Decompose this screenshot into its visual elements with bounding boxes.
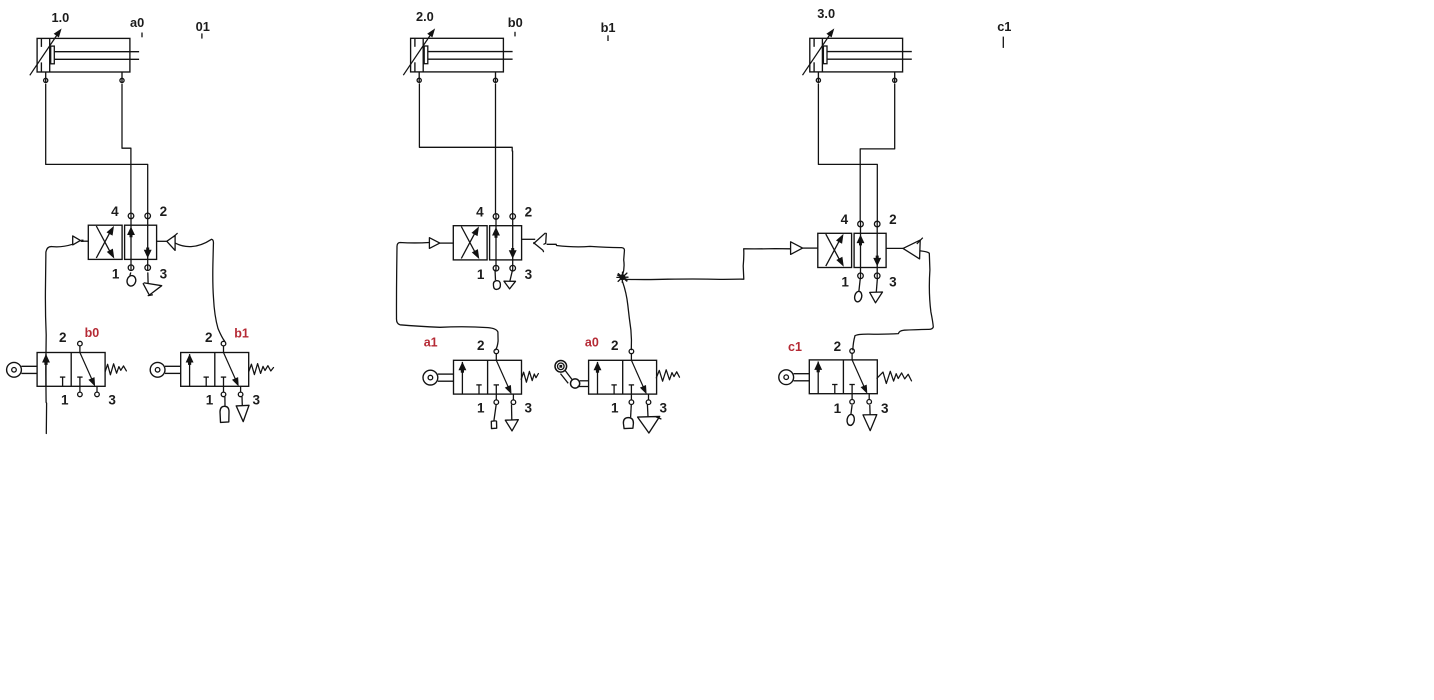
valve a1 exhaust (sketch) <box>505 405 518 431</box>
svg-text:3: 3 <box>881 401 889 416</box>
wire cylinder3.0 right port to valve3.1 port 4 <box>860 84 895 222</box>
valve b1 exhaust (sketch) <box>236 397 249 422</box>
valve 1.1 pressure source (sketch) <box>126 272 137 287</box>
valve b1 return spring <box>249 364 274 375</box>
wire valve1.1 left pilot down past valve b0 <box>45 244 72 433</box>
valve a0 (3/2-way roller valve, spring return) <box>589 349 657 404</box>
valve a0 roller-lever actuator (idle return) <box>555 361 589 389</box>
valve 1.1 right air-pilot <box>157 233 178 250</box>
svg-text:3: 3 <box>160 267 168 282</box>
svg-text:2: 2 <box>205 330 213 345</box>
svg-text:2: 2 <box>59 330 67 345</box>
svg-text:a0: a0 <box>585 336 599 350</box>
valve 2.1 pressure source (sketch) <box>493 270 500 290</box>
valve c1 (3/2-way roller valve, spring return) <box>809 349 877 404</box>
svg-text:a0: a0 <box>130 15 144 30</box>
valve a0 exhaust (sketch) <box>638 404 661 433</box>
svg-text:3: 3 <box>660 401 668 416</box>
svg-text:b1: b1 <box>601 20 616 35</box>
wire junction to valve a0 port 2 <box>623 282 632 350</box>
svg-text:2: 2 <box>160 204 168 219</box>
svg-text:2: 2 <box>525 205 533 220</box>
wire cylinder2.0 left port to valve2.1 port 2 <box>419 84 512 214</box>
svg-text:1: 1 <box>841 275 849 290</box>
wire cylinder1.0 right port to valve1.1 port 4 <box>122 84 131 213</box>
svg-text:4: 4 <box>841 212 849 227</box>
svg-text:3: 3 <box>524 401 532 416</box>
svg-text:2: 2 <box>477 338 485 353</box>
svg-text:b0: b0 <box>508 15 523 30</box>
cylinder 1.0 (double-acting, adjustable cushioning) <box>30 29 139 82</box>
wire cylinder1.0 left port to valve1.1 port 2 <box>46 84 148 213</box>
wire junction to valve3.1 left pilot <box>627 249 791 280</box>
svg-text:b0: b0 <box>85 326 100 340</box>
svg-text:01: 01 <box>196 19 210 34</box>
valve b1 roller actuator <box>150 362 180 377</box>
valve c1 return spring <box>877 371 912 383</box>
valve 3.1 (5/2-way, air pilot both sides) <box>818 221 886 279</box>
svg-text:2: 2 <box>834 339 842 354</box>
valve c1 roller actuator <box>779 370 810 385</box>
valve b0 return spring <box>105 364 126 375</box>
wire valve2.1 right pilot to junction <box>547 244 624 275</box>
svg-text:1: 1 <box>61 393 69 408</box>
svg-text:3: 3 <box>108 393 116 408</box>
svg-text:1: 1 <box>477 401 485 416</box>
wire cylinder3.0 left port to valve3.1 port 2 <box>818 84 877 222</box>
valve 3.1 right air-pilot <box>887 238 923 259</box>
svg-text:1: 1 <box>112 267 120 282</box>
svg-text:3: 3 <box>889 275 897 290</box>
wire valve3.1 right pilot to valve c1 port 2 <box>853 251 934 350</box>
valve 2.1 right air-pilot <box>522 233 547 251</box>
svg-text:3: 3 <box>525 267 533 282</box>
wire cylinder2.0 right port to valve2.1 port 4 <box>495 84 497 214</box>
svg-text:a1: a1 <box>424 336 438 350</box>
valve a1 pressure source (sketch) <box>491 405 496 429</box>
valve b0 (3/2-way roller valve, spring return) <box>37 341 105 396</box>
svg-text:3.0: 3.0 <box>817 6 835 21</box>
svg-text:1: 1 <box>611 401 619 416</box>
valve 1.1 exhaust (sketch) <box>143 272 162 295</box>
svg-text:2: 2 <box>889 212 897 227</box>
valve 2.1 (5/2-way, air pilot both sides) <box>453 213 521 271</box>
valve 2.1 left air-pilot <box>429 238 453 249</box>
wire valve1.1 right pilot to valve b1 port 2 <box>175 239 224 341</box>
svg-text:4: 4 <box>111 204 119 219</box>
valve 3.1 exhaust (sketch) <box>870 278 883 303</box>
svg-text:2: 2 <box>611 338 619 353</box>
svg-text:1: 1 <box>206 393 214 408</box>
sensor mark a0 <box>130 15 144 38</box>
valve a1 (3/2-way roller valve, spring return) <box>454 349 522 404</box>
valve a0 return spring <box>656 370 679 381</box>
valve b0 roller actuator <box>7 362 37 377</box>
valve a0 pressure source (sketch) <box>623 404 633 428</box>
svg-text:b1: b1 <box>234 327 249 341</box>
junction node (scribbled) <box>617 272 628 282</box>
valve a1 roller actuator <box>423 370 454 385</box>
cylinder 3.0 (double-acting, adjustable cushioning) <box>803 29 912 82</box>
valve b1 pressure source (sketch) <box>220 397 229 423</box>
svg-text:2.0: 2.0 <box>416 9 434 24</box>
svg-text:c1: c1 <box>788 340 802 354</box>
valve 2.1 exhaust (sketch) <box>504 270 516 289</box>
svg-text:1: 1 <box>834 401 842 416</box>
svg-text:1: 1 <box>477 267 485 282</box>
sensor mark b1 <box>601 20 616 41</box>
wire valve2.1 left pilot to valve a1 port 2 <box>396 243 498 350</box>
sensor mark b0 <box>508 15 523 36</box>
svg-text:1.0: 1.0 <box>52 10 70 25</box>
valve 1.1 left air-pilot <box>73 236 89 245</box>
svg-text:4: 4 <box>476 205 484 220</box>
valve c1 pressure source (sketch) <box>846 405 855 426</box>
valve 3.1 pressure source (sketch) <box>854 278 863 302</box>
sensor mark c1 <box>997 19 1011 48</box>
valve a1 return spring <box>521 371 538 382</box>
valve 1.1 (5/2-way, air pilot both sides) <box>88 213 156 271</box>
valve c1 exhaust (sketch) <box>863 405 877 431</box>
valve b1 (3/2-way roller valve, spring return) <box>181 341 249 396</box>
svg-text:c1: c1 <box>997 19 1011 34</box>
sensor mark 01 <box>196 19 210 39</box>
svg-text:3: 3 <box>253 393 261 408</box>
cylinder 2.0 (double-acting, adjustable cushioning) <box>403 29 512 82</box>
valve 3.1 left air-pilot <box>791 242 818 255</box>
